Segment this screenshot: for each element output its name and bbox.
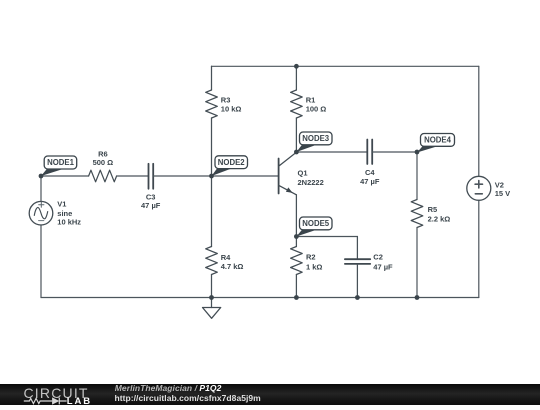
- svg-text:R3: R3: [221, 95, 231, 104]
- svg-text:NODE2: NODE2: [218, 158, 246, 167]
- svg-text:10 kHz: 10 kHz: [57, 218, 81, 227]
- svg-text:100 Ω: 100 Ω: [306, 105, 327, 114]
- svg-text:47 µF: 47 µF: [360, 177, 380, 186]
- svg-text:15 V: 15 V: [495, 189, 510, 198]
- svg-text:V1: V1: [57, 199, 66, 208]
- svg-text:500 Ω: 500 Ω: [93, 158, 114, 167]
- svg-text:LAB: LAB: [67, 396, 92, 405]
- svg-text:R1: R1: [306, 95, 316, 104]
- svg-text:2.2 kΩ: 2.2 kΩ: [428, 215, 451, 224]
- svg-text:NODE4: NODE4: [424, 136, 452, 145]
- svg-text:Q1: Q1: [298, 169, 308, 178]
- svg-text:C2: C2: [373, 252, 383, 261]
- svg-text:NODE1: NODE1: [47, 158, 75, 167]
- svg-text:NODE3: NODE3: [302, 134, 330, 143]
- svg-text:R5: R5: [428, 205, 438, 214]
- svg-text:4.7 kΩ: 4.7 kΩ: [221, 262, 244, 271]
- svg-text:10 kΩ: 10 kΩ: [221, 105, 242, 114]
- svg-text:47 µF: 47 µF: [373, 262, 393, 271]
- svg-text:C4: C4: [365, 168, 375, 177]
- svg-text:47 µF: 47 µF: [141, 201, 161, 210]
- svg-text:R4: R4: [221, 253, 231, 262]
- svg-text:R6: R6: [98, 149, 108, 158]
- svg-text:NODE5: NODE5: [302, 219, 330, 228]
- svg-text:2N2222: 2N2222: [298, 178, 324, 187]
- svg-text:R2: R2: [306, 252, 316, 261]
- svg-text:1 kΩ: 1 kΩ: [306, 262, 322, 271]
- svg-text:sine: sine: [57, 209, 72, 218]
